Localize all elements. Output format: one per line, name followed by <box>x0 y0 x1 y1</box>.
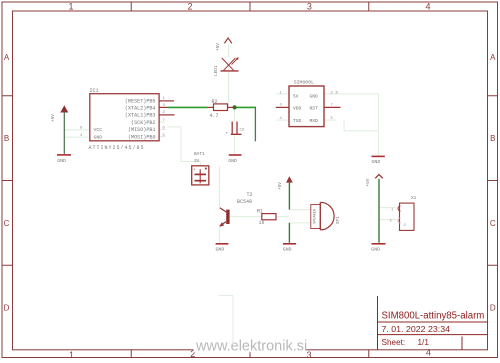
svg-text:TXD: TXD <box>293 118 302 124</box>
svg-text:B: B <box>490 134 495 143</box>
ground left <box>57 155 71 164</box>
svg-text:LED1: LED1 <box>214 65 219 76</box>
svg-text:BC548: BC548 <box>237 199 252 205</box>
capacitor C2 <box>226 122 245 137</box>
svg-text:RST: RST <box>310 105 319 111</box>
svg-text:4: 4 <box>425 2 430 12</box>
svg-text:C2: C2 <box>240 129 245 133</box>
supply +5V right column <box>366 175 383 187</box>
IC1 pin numbers <box>80 97 166 138</box>
svg-text:T2: T2 <box>247 192 253 198</box>
resistor R1 <box>257 209 276 226</box>
wire speaker column stem upper <box>288 183 290 210</box>
svg-text:(MOSI)PB0: (MOSI)PB0 <box>128 134 156 140</box>
svg-text:+5V: +5V <box>366 178 371 186</box>
SIM800L pin 3 stub left <box>276 106 289 108</box>
svg-text:X1: X1 <box>411 196 417 201</box>
svg-text:www.elektronik.si: www.elektronik.si <box>195 339 307 355</box>
svg-text:GND: GND <box>216 247 225 253</box>
ground under speaker column <box>283 244 296 253</box>
supply +5V speaker column <box>278 176 293 190</box>
svg-text:GND: GND <box>371 247 380 253</box>
ground under C2 <box>228 155 241 164</box>
svg-text:SP1: SP1 <box>337 216 341 224</box>
svg-text:5V: 5V <box>293 93 299 99</box>
IC1 pin 3 stub <box>159 106 168 108</box>
wire speaker column stem lower <box>288 223 290 243</box>
svg-text:RXD: RXD <box>310 118 319 124</box>
transistor T2 BC548 <box>220 192 253 227</box>
svg-text:SIM800L: SIM800L <box>294 80 314 86</box>
svg-text:VDD: VDD <box>293 105 302 111</box>
svg-text:C: C <box>490 219 496 228</box>
svg-text:7. 01. 2022 23:34: 7. 01. 2022 23:34 <box>382 325 451 334</box>
svg-text:(XTAL2)PB4: (XTAL2)PB4 <box>125 106 156 112</box>
svg-text:+5V: +5V <box>51 114 56 122</box>
svg-text:1: 1 <box>68 2 73 12</box>
wire pale net segments <box>64 44 396 345</box>
svg-text:B: B <box>4 134 9 143</box>
svg-text:GND: GND <box>228 158 237 164</box>
wire green vertical down from corner <box>254 107 256 142</box>
svg-text:GND: GND <box>310 93 319 99</box>
svg-text:2: 2 <box>187 2 192 12</box>
svg-text:3: 3 <box>306 350 311 360</box>
svg-text:4.7: 4.7 <box>210 113 219 119</box>
svg-text:+5V: +5V <box>216 43 221 51</box>
speaker SP1 <box>311 202 341 230</box>
svg-text:R1: R1 <box>257 209 263 215</box>
supply +5V left (arrow) <box>51 105 68 122</box>
svg-text:R2: R2 <box>212 99 218 105</box>
svg-text:(SCK)PB2: (SCK)PB2 <box>131 120 155 126</box>
svg-text:4: 4 <box>426 348 431 358</box>
ground bottom right column <box>371 244 385 253</box>
svg-text:SIM800L-attiny85-alarm: SIM800L-attiny85-alarm <box>382 311 485 322</box>
svg-text:ATTINY25/45/85: ATTINY25/45/85 <box>89 145 145 151</box>
svg-text:GND: GND <box>94 134 103 140</box>
svg-text:(MISO)PB1: (MISO)PB1 <box>128 127 156 133</box>
svg-text:Sheet:: Sheet: <box>382 338 406 347</box>
svg-text:SPEAKER: SPEAKER <box>314 208 318 224</box>
battery BT1 <box>192 152 209 185</box>
svg-text:A: A <box>490 53 496 62</box>
node junction dot <box>233 105 237 109</box>
svg-text:GND: GND <box>283 247 292 253</box>
IC1 pin 2 stub <box>159 114 175 116</box>
svg-text:D: D <box>490 304 496 313</box>
svg-text:GND: GND <box>372 159 381 165</box>
svg-text:A: A <box>4 53 10 62</box>
SIM800L module <box>289 80 324 127</box>
wire green net IC1 to R2 <box>168 106 208 108</box>
watermark www.elektronik.si <box>194 338 306 352</box>
svg-text:+5V: +5V <box>278 182 283 190</box>
svg-text:1: 1 <box>69 350 74 360</box>
title block <box>378 296 488 350</box>
connector X1 <box>390 196 417 230</box>
SIM800L pin numbers <box>280 91 339 121</box>
wire left supply stem <box>63 112 65 154</box>
svg-text:D: D <box>4 304 10 313</box>
svg-text:C: C <box>4 219 10 228</box>
supply +5V top (LED column) <box>216 38 232 51</box>
svg-text:GND: GND <box>57 158 66 164</box>
svg-text:BAT1: BAT1 <box>194 152 205 157</box>
svg-text:(RESET)PB5: (RESET)PB5 <box>125 99 156 105</box>
IC1 ATtiny85 <box>89 88 160 151</box>
ground under T2 <box>216 244 229 253</box>
svg-text:3V: 3V <box>194 159 200 164</box>
wire right column stem <box>378 179 380 243</box>
IC1 pin 1 stub <box>159 100 174 102</box>
svg-text:1/1: 1/1 <box>418 338 430 347</box>
wire green net R2 to corner <box>235 106 256 108</box>
ground top right <box>372 156 385 165</box>
SIM800L pin 7 stub right <box>324 106 341 108</box>
svg-text:VCC: VCC <box>94 127 103 133</box>
svg-text:+: + <box>226 132 229 137</box>
svg-text:(XTAL1)PB3: (XTAL1)PB3 <box>125 113 156 119</box>
svg-text:3: 3 <box>307 2 312 12</box>
resistor R2 <box>208 99 235 119</box>
svg-text:IC1: IC1 <box>90 88 99 94</box>
LED1 <box>214 57 239 76</box>
svg-text:1k: 1k <box>259 220 265 226</box>
